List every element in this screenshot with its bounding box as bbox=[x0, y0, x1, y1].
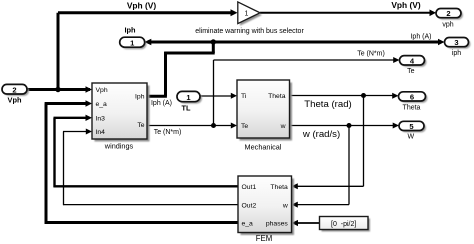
label Theta (rad) bbox=[304, 99, 351, 110]
label Vph (V) top left bbox=[127, 1, 157, 11]
svg-text:w: w bbox=[282, 202, 288, 209]
svg-text:Te: Te bbox=[137, 122, 144, 129]
svg-text:w (rad/s): w (rad/s) bbox=[302, 129, 340, 140]
svg-text:6: 6 bbox=[410, 93, 414, 102]
label Te (N*m) right bbox=[357, 51, 385, 58]
svg-text:Theta: Theta bbox=[268, 93, 286, 100]
wire Vph branch up to gain bbox=[58, 9, 238, 89]
outport 4 Te bbox=[400, 56, 427, 75]
wire Out1 feedback from FEM to windings In3 bbox=[54, 115, 239, 188]
subsystem windings bbox=[92, 83, 150, 151]
wire w branch down to FEM bbox=[292, 126, 350, 208]
svg-text:Theta: Theta bbox=[270, 184, 288, 191]
svg-text:3: 3 bbox=[454, 38, 458, 47]
svg-text:windings: windings bbox=[104, 142, 134, 151]
svg-text:Vph: Vph bbox=[8, 96, 22, 105]
svg-text:e_a: e_a bbox=[96, 101, 108, 108]
subsystem FEM (flipped) bbox=[238, 176, 294, 243]
svg-text:W: W bbox=[407, 134, 414, 141]
svg-text:Te: Te bbox=[407, 68, 415, 75]
svg-text:Te (N*m): Te (N*m) bbox=[154, 129, 182, 136]
svg-text:Iph: Iph bbox=[124, 25, 136, 34]
svg-text:Mechanical: Mechanical bbox=[245, 142, 282, 151]
svg-text:Iph: Iph bbox=[135, 94, 145, 101]
svg-text:w: w bbox=[280, 123, 286, 130]
wire w from Mechanical to outport 5 bbox=[290, 123, 400, 129]
wire TL to Mechanical Ti bbox=[200, 93, 237, 99]
label w (rad/s) bbox=[302, 129, 340, 140]
svg-text:Vph: Vph bbox=[96, 87, 108, 94]
svg-text:Out1: Out1 bbox=[242, 184, 257, 191]
node junction on w wire bbox=[347, 123, 352, 128]
constant block [0 -pi/2] bbox=[320, 217, 371, 232]
inport 2 Vph (left) bbox=[2, 84, 29, 104]
node junction on Te wire bbox=[211, 123, 216, 128]
wire Te from windings to Mechanical bbox=[147, 123, 237, 129]
svg-text:TL: TL bbox=[181, 104, 191, 113]
wire Theta from Mechanical to outport 6 bbox=[290, 93, 399, 99]
svg-text:Iph (A): Iph (A) bbox=[410, 33, 431, 40]
label Iph (A) centre bbox=[151, 100, 172, 107]
svg-text:Te: Te bbox=[241, 123, 248, 130]
gain block U1 (gain 1) bbox=[238, 2, 262, 26]
inport 1 TL bbox=[177, 91, 202, 112]
wire Theta branch down to FEM bbox=[292, 96, 364, 190]
outport 3 iph bbox=[445, 38, 471, 58]
svg-text:Te (N*m): Te (N*m) bbox=[357, 51, 385, 58]
label Vph (V) top right bbox=[391, 0, 421, 10]
svg-text:[0 -pi/2]: [0 -pi/2] bbox=[331, 221, 356, 228]
subsystem Mechanical bbox=[237, 80, 292, 151]
svg-text:Vph (V): Vph (V) bbox=[391, 0, 421, 10]
node junction on Vph wire bbox=[55, 87, 60, 92]
svg-text:In3: In3 bbox=[96, 115, 106, 122]
wire Iph main from windings to outport 1 and outport 3 bbox=[144, 39, 444, 46]
wire Out2 feedback from FEM to windings In4 bbox=[63, 129, 238, 206]
node junction on Theta wire bbox=[361, 93, 366, 98]
outport 5 W bbox=[399, 121, 426, 140]
wire Vph from inport 2 to windings bbox=[27, 86, 92, 93]
svg-text:Vph (V): Vph (V) bbox=[127, 1, 157, 11]
svg-text:Ti: Ti bbox=[241, 93, 247, 100]
svg-text:In4: In4 bbox=[96, 129, 106, 136]
svg-text:vph: vph bbox=[442, 21, 453, 28]
outport 2 vph (top right) bbox=[436, 9, 463, 29]
svg-text:Iph (A): Iph (A) bbox=[151, 100, 172, 107]
wire e_a feedback from FEM to windings bbox=[45, 100, 238, 224]
wire Te branch up to outport 4 bbox=[214, 57, 400, 126]
outport 6 Theta bbox=[399, 92, 428, 112]
svg-text:phases: phases bbox=[266, 221, 289, 228]
svg-text:eliminate warning with bus sel: eliminate warning with bus selector bbox=[195, 28, 304, 35]
svg-text:2: 2 bbox=[12, 85, 16, 94]
svg-text:Theta: Theta bbox=[403, 105, 421, 112]
label eliminate warning with bus selector bbox=[195, 28, 304, 35]
wire gain output to outport 2 bbox=[260, 10, 436, 17]
svg-text:1: 1 bbox=[245, 10, 249, 17]
svg-text:2: 2 bbox=[446, 9, 450, 18]
svg-text:e_a: e_a bbox=[242, 221, 254, 228]
svg-text:iph: iph bbox=[452, 50, 461, 57]
svg-text:Theta (rad): Theta (rad) bbox=[304, 99, 351, 110]
outport 1 Iph (flipped) bbox=[120, 25, 147, 49]
label Iph (A) right bbox=[410, 33, 431, 40]
node junction on Iph wire bbox=[211, 39, 216, 44]
wire constant to FEM phases bbox=[292, 220, 320, 226]
svg-text:FEM: FEM bbox=[256, 234, 272, 243]
label Te (N*m) centre bbox=[154, 129, 182, 136]
wire Iph branch from windings output bbox=[147, 42, 215, 96]
svg-text:Out2: Out2 bbox=[242, 202, 257, 209]
